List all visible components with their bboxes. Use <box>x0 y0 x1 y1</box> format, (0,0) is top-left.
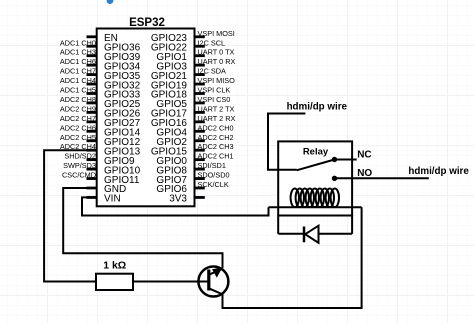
relay coil L1 loops <box>291 189 339 208</box>
svg-text:ADC2 CH7: ADC2 CH7 <box>60 114 96 123</box>
svg-text:Relay: Relay <box>303 147 329 158</box>
pin row 5: GPIO35 / GPIO21 <box>60 67 226 82</box>
svg-text:1 kΩ: 1 kΩ <box>103 259 126 271</box>
wire NC <box>335 159 357 161</box>
contact NC node <box>332 157 337 162</box>
svg-text:ADC2 CH5: ADC2 CH5 <box>60 133 96 142</box>
relay K1 box <box>278 141 352 215</box>
pin row 17: GND / GPIO6 <box>87 180 229 195</box>
svg-text:ESP32: ESP32 <box>129 17 165 29</box>
svg-text:SHD/SD2: SHD/SD2 <box>64 152 96 161</box>
wire NO to hdmi/dp <box>335 177 429 179</box>
svg-text:VIN: VIN <box>104 194 121 205</box>
pin row 16: GPIO11 / GPIO7 <box>62 171 230 186</box>
pin row 9: GPIO26 / GPIO17 <box>60 104 235 119</box>
blue marker dot <box>107 0 114 4</box>
pin row 6: GPIO32 / GPIO19 <box>60 76 235 91</box>
pin row 8: GPIO25 / GPIO5 <box>60 95 230 110</box>
relay coil L1 lead <box>269 206 362 208</box>
wire Q1 collector to coil right <box>223 207 362 308</box>
resistor R1 1 kOhm <box>96 274 133 290</box>
switch arm <box>297 160 335 171</box>
svg-text:CSC/CMD: CSC/CMD <box>62 171 96 180</box>
pin row 7: GPIO33 / GPIO18 <box>60 86 231 101</box>
svg-text:VSPI MISO: VSPI MISO <box>198 76 236 85</box>
svg-text:ADC1 CH0: ADC1 CH0 <box>60 38 96 47</box>
ESP32 U1 body <box>97 29 195 207</box>
svg-text:UART 2 TX: UART 2 TX <box>198 104 235 113</box>
pin row 3: GPIO39 / GPIO1 <box>60 48 235 63</box>
diode D1 <box>304 226 319 243</box>
svg-text:3V3: 3V3 <box>169 194 187 205</box>
svg-text:hdmi/dp wire: hdmi/dp wire <box>287 101 348 112</box>
svg-text:ADC1 CH6: ADC1 CH6 <box>60 57 96 66</box>
svg-text:UART 0 RX: UART 0 RX <box>198 57 236 66</box>
wire coil left down to diode <box>277 216 279 234</box>
wire diode line <box>278 233 352 235</box>
svg-text:SDO/SD0: SDO/SD0 <box>198 171 230 180</box>
wire R1 to Q1 base <box>133 281 209 283</box>
svg-text:ADC1 CH4: ADC1 CH4 <box>60 76 96 85</box>
pin row 15: GPIO10 / GPIO8 <box>63 161 226 176</box>
svg-text:UART 2 RX: UART 2 RX <box>198 114 236 123</box>
svg-text:SCK/CLK: SCK/CLK <box>198 180 229 189</box>
wire GPIO13 to resistor R1 <box>44 150 97 281</box>
svg-text:ADC2 CH3: ADC2 CH3 <box>198 142 234 151</box>
svg-text:I2C SCL: I2C SCL <box>198 38 226 47</box>
svg-text:SWP/SD3: SWP/SD3 <box>63 161 96 170</box>
pin row 13: GPIO13 / GPIO15 <box>60 142 234 157</box>
pin row 1: EN / GPIO23 <box>87 29 235 44</box>
svg-text:ADC2 CH8: ADC2 CH8 <box>60 95 96 104</box>
pin row 12: GPIO12 / GPIO2 <box>60 133 234 148</box>
pin row 2: GPIO36 / GPIO22 <box>60 38 225 53</box>
svg-text:VSPI CLK: VSPI CLK <box>198 86 231 95</box>
svg-text:ADC1 CH5: ADC1 CH5 <box>60 86 96 95</box>
wire hdmi/dp common lead <box>268 114 305 170</box>
svg-text:ADC1 CH7: ADC1 CH7 <box>60 67 96 76</box>
contact NO node <box>332 176 337 181</box>
svg-text:ADC2 CH6: ADC2 CH6 <box>60 123 96 132</box>
svg-text:UART 0 TX: UART 0 TX <box>198 48 235 57</box>
pin row 14: GPIO9 / GPIO0 <box>64 152 233 167</box>
pin row 18: VIN / 3V3 <box>87 194 205 205</box>
svg-text:VSPI CS0: VSPI CS0 <box>198 95 231 104</box>
svg-text:ADC2 CH1: ADC2 CH1 <box>198 152 234 161</box>
pin row 11: GPIO14 / GPIO4 <box>60 123 234 138</box>
svg-text:I2C SDA: I2C SDA <box>198 67 227 76</box>
svg-text:SDI/SD1: SDI/SD1 <box>198 161 226 170</box>
svg-text:NC: NC <box>357 149 371 160</box>
svg-text:ADC1 CH3: ADC1 CH3 <box>60 48 96 57</box>
wire coil right down to diode <box>351 216 353 234</box>
transistor Q1 NPN <box>198 267 228 297</box>
svg-text:hdmi/dp wire: hdmi/dp wire <box>408 166 469 177</box>
svg-text:ADC2 CH2: ADC2 CH2 <box>198 133 234 142</box>
svg-text:NO: NO <box>357 168 372 179</box>
svg-text:VSPI MOSI: VSPI MOSI <box>198 29 235 38</box>
pin row 4: GPIO34 / GPIO3 <box>60 57 236 72</box>
svg-text:ADC2 CH9: ADC2 CH9 <box>60 104 96 113</box>
pin row 10: GPIO27 / GPIO16 <box>60 114 236 129</box>
wire GND to Q1 emitter <box>63 188 222 268</box>
wire VIN to relay coil left <box>82 197 269 215</box>
svg-text:ADC2 CH0: ADC2 CH0 <box>198 123 234 132</box>
